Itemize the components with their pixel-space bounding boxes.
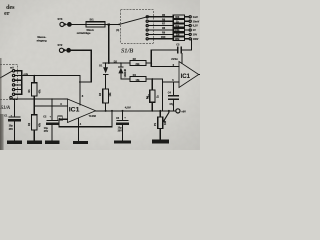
svg-text:10k: 10k [164,120,167,125]
svg-text:0,1V: 0,1V [193,25,198,28]
svg-text:eingang: eingang [37,38,47,42]
pot wiper [168,110,170,112]
ground divider [27,140,42,143]
resistor R2 [130,61,146,66]
svg-text:mA: mA [10,67,14,70]
trimmer R5 vertical [151,78,153,80]
resistor R1 divider top [32,83,38,96]
capacitor C1 [14,99,16,117]
connector ST2 [59,48,63,52]
resistor R5 box [173,15,184,18]
switch S1/A dashed enclosure [0,64,17,100]
svg-text:S1/B: S1/B [121,47,133,54]
capacitor C4 [173,82,175,95]
svg-text:4,5V: 4,5V [125,105,131,109]
S1/B contact row 6 [146,38,148,40]
ground P1 [152,140,169,144]
S1/A contacts [12,70,14,72]
ground IC1 [73,141,88,144]
fuse Si1 50mA [86,22,105,27]
pin 2 box [58,116,63,121]
scan edge shading [0,58,2,150]
S1/A bus [21,71,23,95]
S1/A bottom contact [10,96,12,98]
resistor R9 box [173,33,184,36]
resistor R6 box [173,20,184,23]
wire S1/B wiper [119,16,148,24]
svg-text:IC1: IC1 [69,107,80,114]
svg-text:1M: 1M [176,34,179,37]
svg-text:+9V: +9V [181,110,186,114]
svg-text:25V: 25V [9,128,14,131]
S1/B contact row 4 [146,29,148,31]
output rail 4,5V [96,110,176,112]
ground C2 [45,140,60,143]
switch S1/B dashed enclosure [121,10,154,43]
resistor R7 box [173,24,184,27]
node junction [118,24,120,26]
wire bias vertical [161,79,163,111]
svg-text:100: 100 [175,16,180,19]
S1/A wiper [0,71,12,79]
op-amp IC1 A [68,99,96,123]
svg-text:10k: 10k [109,92,112,97]
svg-text:47p: 47p [169,102,174,106]
wire +Ue rail [19,75,80,77]
output stubs and terminals [185,16,190,18]
resistor R10 box [173,37,184,40]
wire input node [108,23,110,25]
svg-text:(4): (4) [116,29,119,32]
svg-text:100k: 100k [174,29,180,32]
svg-text:10mV: 10mV [193,20,200,23]
svg-text:25V: 25V [44,130,49,133]
S1/B contact row 5 [146,33,148,35]
svg-text:22k: 22k [136,63,141,66]
svg-text:1mV: 1mV [193,16,198,19]
svg-text:25V: 25V [118,130,123,133]
ground C1 [7,141,22,144]
resistor R8 box [173,28,184,31]
wire fuse to switch wiper junction [105,23,119,25]
svg-text:TL062: TL062 [89,114,97,118]
capacitor C3 wiring [151,49,176,51]
wire ST3 to fuse [71,23,86,25]
potentiometer P1 [159,110,161,112]
svg-text:1V: 1V [193,29,196,32]
svg-text:15k: 15k [136,79,141,82]
wire pin8 [79,76,81,105]
svg-text:Si1: Si1 [90,18,95,22]
wire pin2 feedback [59,111,112,127]
S1/B contact row 2 [146,20,148,22]
svg-text:1N4148: 1N4148 [124,68,127,77]
wire ST2 to node [70,50,91,82]
wire pin3 [34,105,67,107]
svg-text:mittelträge: mittelträge [77,31,91,35]
svg-text:+Ue: +Ue [23,72,28,76]
diode D2 [120,63,122,66]
svg-text:47k: 47k [38,122,41,127]
ground C5 [114,140,131,143]
svg-text:ST3: ST3 [58,17,63,21]
svg-text:R10: R10 [161,36,166,39]
svg-text:47k: 47k [38,89,41,94]
node pin6 path [150,50,152,67]
S1/B contact row 1 [146,16,148,18]
svg-text:ST2: ST2 [58,43,63,47]
paper background [0,0,200,150]
svg-text:220n: 220n [171,57,178,61]
capacitor C5 [122,111,124,120]
diode D1 [105,63,107,67]
svg-text:10V: 10V [193,34,198,37]
wire pin5 [162,81,179,83]
wire pin4 to ground [78,118,80,141]
svg-text:100V: 100V [193,38,199,41]
op-amp IC1 B [179,62,199,88]
svg-text:10M: 10M [175,38,180,41]
svg-text:10k: 10k [175,25,180,28]
resistor R2b divider bottom [32,115,38,130]
svg-text:er: er [4,11,10,17]
svg-text:S1/A: S1/A [1,106,11,111]
capacitor C3 plates [177,46,178,53]
S1/B contact row 3 [146,25,148,27]
svg-text:IC1: IC1 [181,74,191,80]
connector ST3 [60,22,64,26]
resistor R3 vertical [103,89,109,103]
wire node to IC1 pin area [12,98,67,100]
terminal +9V [176,109,180,113]
capacitor C2 [51,99,53,120]
resistor R4 [130,77,146,82]
